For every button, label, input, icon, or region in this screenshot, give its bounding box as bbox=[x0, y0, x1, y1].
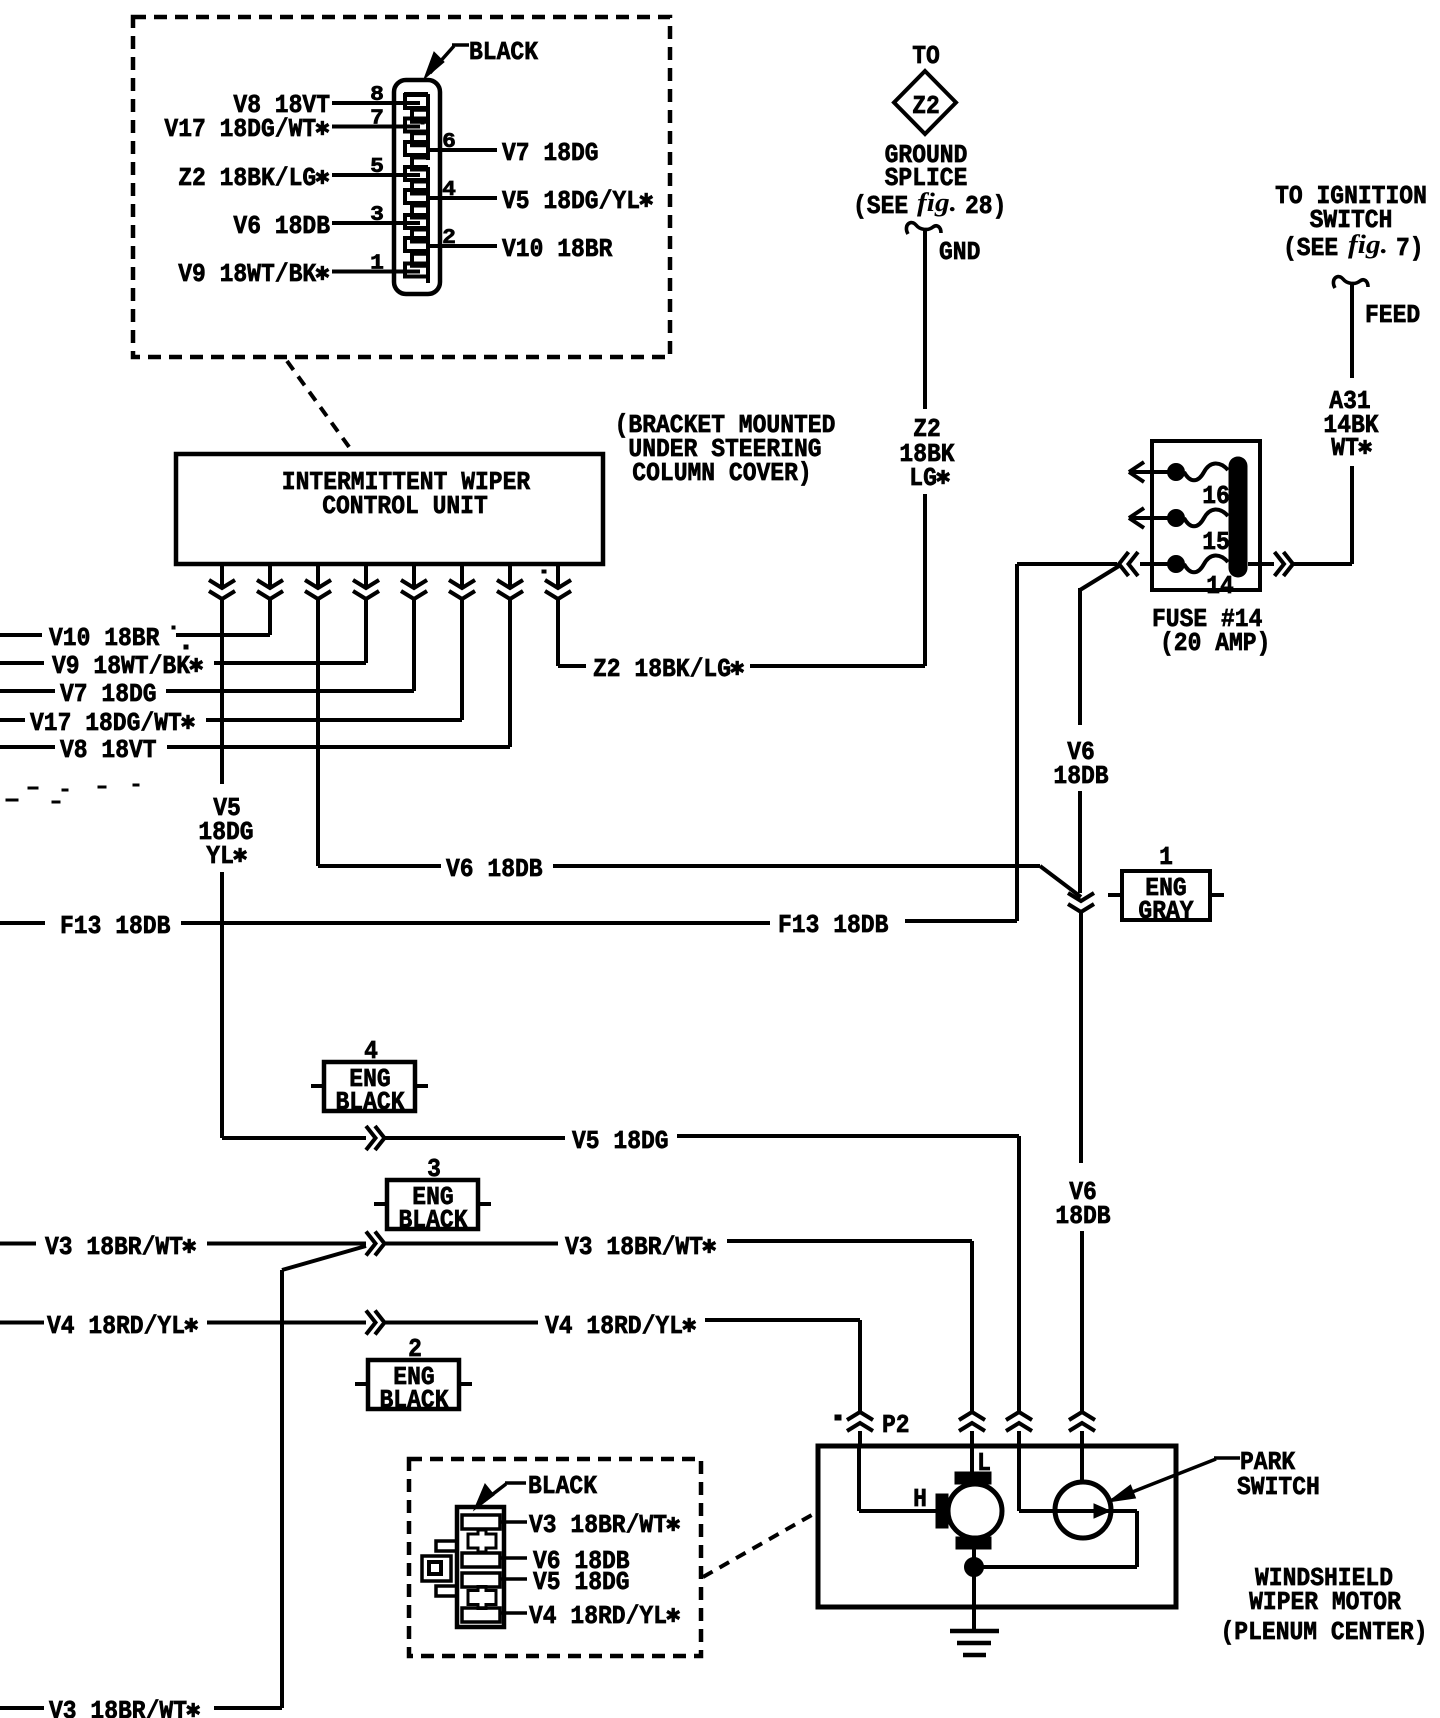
connector C2 body bbox=[457, 1507, 504, 1627]
park switch loop to motor junction bbox=[1135, 1511, 1139, 1567]
motor connector dashed box bbox=[409, 1459, 701, 1656]
windshield wiper motor box bbox=[818, 1446, 1176, 1607]
svg-text:V3 18BR/WT: V3 18BR/WT bbox=[45, 1232, 183, 1262]
park switch circle bbox=[1055, 1482, 1111, 1538]
wire from fuse to F13 junction bbox=[1015, 564, 1019, 921]
svg-text:V17 18DG/WT: V17 18DG/WT bbox=[30, 708, 182, 738]
svg-text:V9 18WT/BK: V9 18WT/BK bbox=[178, 259, 316, 289]
svg-text:Z2 18BK/LG: Z2 18BK/LG bbox=[593, 654, 731, 684]
wire V5 inside box to park switch bbox=[1019, 1509, 1137, 1513]
control unit pin 3 inline connector bbox=[316, 564, 320, 586]
wire V3 18BR/WT* bbox=[0, 1242, 36, 1246]
wire A31 14BK WT* bbox=[1350, 284, 1354, 378]
svg-text:V7 18DG: V7 18DG bbox=[502, 138, 599, 168]
fuse terminal dot 16 bbox=[1168, 464, 1185, 481]
control unit pin 4 inline connector bbox=[364, 564, 368, 586]
fuse pin15 exit arrow bbox=[1130, 516, 1168, 520]
wire V6 18DB (pin3) down and right bbox=[316, 599, 320, 866]
svg-text:fig.: fig. bbox=[1348, 230, 1388, 259]
svg-text:V10 18BR: V10 18BR bbox=[502, 234, 613, 264]
svg-text:L: L bbox=[977, 1448, 991, 1478]
svg-text:V6 18DB: V6 18DB bbox=[446, 854, 543, 884]
C2 pin slot 2 bbox=[462, 1553, 500, 1567]
svg-text:V4 18RD/YL: V4 18RD/YL bbox=[545, 1311, 683, 1341]
svg-text:GRAY: GRAY bbox=[1138, 896, 1194, 926]
motor lower brush bbox=[956, 1537, 991, 1549]
svg-text:GND: GND bbox=[939, 237, 980, 267]
svg-text:BLACK: BLACK bbox=[336, 1087, 405, 1117]
fuse bus bar bbox=[1229, 466, 1248, 568]
ground symbol bbox=[950, 1629, 999, 1634]
motor armature circle bbox=[948, 1484, 1002, 1538]
control unit pin 5 inline connector bbox=[412, 564, 416, 586]
svg-text:SWITCH: SWITCH bbox=[1237, 1472, 1320, 1502]
svg-text:V8 18VT: V8 18VT bbox=[60, 735, 157, 765]
wire V6 18DB from fuse down to motor bbox=[1078, 588, 1082, 725]
svg-text:FEED: FEED bbox=[1365, 300, 1420, 330]
svg-text:(20 AMP): (20 AMP) bbox=[1160, 628, 1270, 658]
C2 side tabs bbox=[436, 1541, 457, 1551]
svg-text:YL: YL bbox=[206, 841, 234, 871]
svg-text:V10 18BR: V10 18BR bbox=[49, 623, 160, 653]
svg-text:V4 18RD/YL: V4 18RD/YL bbox=[47, 1311, 185, 1341]
fuse link 14 bbox=[1184, 555, 1228, 572]
svg-text:Z2 18BK/LG: Z2 18BK/LG bbox=[178, 163, 316, 193]
PARK SWITCH label with leader arrow bbox=[1214, 1456, 1240, 1460]
scan noise bbox=[6, 121, 841, 1420]
fuse link 16 bbox=[1184, 463, 1228, 480]
svg-text:CONTROL UNIT: CONTROL UNIT bbox=[322, 491, 488, 521]
svg-text:WIPER MOTOR: WIPER MOTOR bbox=[1249, 1587, 1401, 1617]
svg-text:V5 18DG/YL: V5 18DG/YL bbox=[502, 186, 640, 216]
svg-text:fig.: fig. bbox=[917, 188, 957, 217]
control unit pin 8 inline connector bbox=[556, 564, 560, 586]
control unit pin 2 inline connector bbox=[268, 564, 272, 586]
svg-text:V7 18DG: V7 18DG bbox=[60, 679, 157, 709]
wire V4 18RD/YL* bbox=[0, 1321, 44, 1325]
C2 pin slot 1 bbox=[462, 1515, 500, 1529]
C2 pin slot 4 bbox=[462, 1608, 500, 1622]
diagonal from bottom V3 wire to inline connector bbox=[282, 1246, 366, 1270]
fuse terminal dot 15 bbox=[1168, 510, 1185, 527]
control unit pin 7 inline connector bbox=[508, 564, 512, 586]
svg-text:(SEE: (SEE bbox=[853, 191, 908, 221]
svg-text:F13 18DB: F13 18DB bbox=[778, 910, 889, 940]
svg-text:V17 18DG/WT: V17 18DG/WT bbox=[164, 114, 316, 144]
motor junction wire bbox=[972, 1549, 976, 1631]
wire V10 18BR (pin2) bbox=[268, 599, 272, 635]
svg-text:WT: WT bbox=[1331, 433, 1359, 463]
control unit pin 1 inline connector bbox=[220, 564, 224, 586]
diagonal V6 to inline connector bbox=[1040, 866, 1081, 897]
svg-text:BLACK: BLACK bbox=[528, 1471, 597, 1501]
svg-text:V9 18WT/BK: V9 18WT/BK bbox=[52, 651, 190, 681]
fuse link 15 bbox=[1184, 509, 1228, 526]
svg-text:14: 14 bbox=[1206, 571, 1234, 601]
wire V8 18VT (pin7) bbox=[508, 599, 512, 747]
fuse pin14 right inline connector to ignition feed bbox=[1248, 562, 1274, 566]
feed break squiggle bbox=[1333, 277, 1368, 288]
svg-text:P2: P2 bbox=[882, 1410, 910, 1440]
wire Z2 18BK/LG* (pin8) to ground splice bbox=[556, 599, 560, 666]
svg-text:18DB: 18DB bbox=[1053, 761, 1109, 791]
svg-text:7): 7) bbox=[1396, 233, 1424, 263]
wire V4 to H brush bbox=[857, 1446, 861, 1511]
svg-text:V5 18DG: V5 18DG bbox=[533, 1567, 630, 1597]
wire V3 from bottom left bbox=[280, 1270, 284, 1708]
park switch feed arrowhead bbox=[1094, 1504, 1110, 1518]
svg-text:(SEE: (SEE bbox=[1283, 233, 1338, 263]
wire V17 18DG/WT* (pin6) bbox=[460, 599, 464, 720]
connector detail dashed box bbox=[133, 17, 670, 357]
svg-text:15: 15 bbox=[1202, 527, 1230, 557]
svg-text:28): 28) bbox=[965, 191, 1006, 221]
H brush bbox=[936, 1494, 948, 1528]
C2 key cross 1 bbox=[468, 1530, 496, 1552]
wire V5 vertical (pin1) bbox=[220, 599, 224, 784]
connector C1 body bbox=[394, 80, 440, 294]
svg-text:16: 16 bbox=[1202, 481, 1230, 511]
fuse pin14 inline connector bbox=[1017, 562, 1117, 566]
connector C1 terminal comb bbox=[404, 94, 428, 283]
wire Z2 18BK LG* vertical bbox=[923, 230, 927, 409]
L brush bbox=[955, 1472, 991, 1484]
junction dot bbox=[965, 1558, 984, 1577]
P2 connector chevron bbox=[847, 1412, 873, 1420]
svg-text:BLACK: BLACK bbox=[380, 1385, 449, 1415]
svg-text:V3 18BR/WT: V3 18BR/WT bbox=[49, 1696, 187, 1718]
diagonal from pin14 connector to V6 wire bbox=[1080, 566, 1119, 590]
svg-text:F13 18DB: F13 18DB bbox=[60, 911, 171, 941]
svg-text:V3 18BR/WT: V3 18BR/WT bbox=[529, 1510, 667, 1540]
wire V3 to L brush bbox=[970, 1446, 974, 1474]
svg-text:BLACK: BLACK bbox=[469, 37, 538, 67]
svg-text:V3 18BR/WT: V3 18BR/WT bbox=[565, 1232, 703, 1262]
svg-text:V5 18DG: V5 18DG bbox=[572, 1126, 669, 1156]
fuse terminal dot 14 bbox=[1168, 556, 1185, 573]
svg-text:LG: LG bbox=[909, 463, 937, 493]
svg-text:TO: TO bbox=[912, 41, 940, 71]
dashed leader from detail box to control unit bbox=[287, 361, 352, 451]
svg-text:18DB: 18DB bbox=[1055, 1201, 1111, 1231]
svg-text:BLACK: BLACK bbox=[399, 1205, 468, 1235]
control unit pin 6 inline connector bbox=[460, 564, 464, 586]
C2 pin slot 3 bbox=[462, 1573, 500, 1587]
splice break squiggle bbox=[906, 223, 941, 234]
svg-text:Z2: Z2 bbox=[912, 91, 940, 121]
svg-text:1: 1 bbox=[1159, 842, 1173, 872]
svg-text:COLUMN COVER): COLUMN COVER) bbox=[632, 458, 811, 488]
svg-text:H: H bbox=[913, 1484, 927, 1514]
svg-text:V6 18DB: V6 18DB bbox=[233, 211, 330, 241]
svg-text:(PLENUM CENTER): (PLENUM CENTER) bbox=[1221, 1617, 1428, 1647]
dashed leader to motor box bbox=[703, 1512, 817, 1577]
C2 key cross 2 bbox=[468, 1587, 496, 1609]
fuse #14 box bbox=[1152, 441, 1260, 590]
intermittent wiper control unit box bbox=[176, 454, 603, 564]
C2 pin labels bbox=[500, 1520, 527, 1524]
svg-text:V4 18RD/YL: V4 18RD/YL bbox=[529, 1601, 667, 1631]
wire V7 18DG (pin5) bbox=[412, 599, 416, 691]
wire V9 18WT/BK* (pin4) bbox=[364, 599, 368, 663]
wire V5 18DG to motor bbox=[222, 1136, 366, 1140]
fuse pin16 exit arrow bbox=[1130, 470, 1168, 474]
V6 inline connector (eng gray) bbox=[1068, 893, 1094, 901]
